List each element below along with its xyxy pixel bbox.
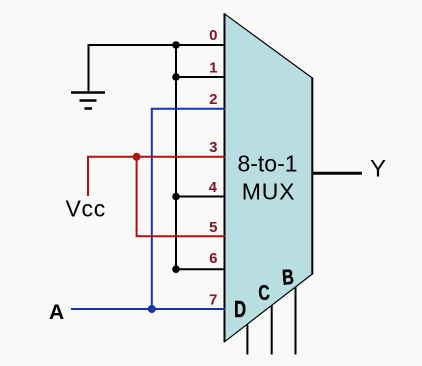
- node junction input 6: [172, 265, 180, 273]
- svg-text:1: 1: [209, 60, 217, 77]
- svg-text:B: B: [281, 266, 294, 291]
- node junction Vcc net: [133, 153, 141, 161]
- svg-text:5: 5: [209, 219, 217, 236]
- wire input 6: [176, 268, 225, 270]
- mux body right edge: [311, 78, 313, 275]
- node junction input 4: [172, 193, 180, 201]
- svg-text:Y: Y: [370, 156, 386, 183]
- svg-text:Vcc: Vcc: [66, 196, 106, 222]
- svg-text:6: 6: [209, 250, 217, 267]
- svg-text:A: A: [49, 301, 64, 324]
- svg-text:2: 2: [209, 91, 217, 108]
- svg-text:MUX: MUX: [242, 179, 296, 205]
- svg-text:C: C: [258, 280, 271, 304]
- wire input 1: [176, 76, 225, 78]
- wire input 5 red branch: [137, 157, 225, 236]
- node junction input 1: [172, 73, 180, 81]
- mux body bottom slant edge: [225, 274, 313, 342]
- node junction input 0: [172, 41, 180, 49]
- wire input 2 blue with vertical bus from A: [152, 109, 225, 309]
- svg-text:0: 0: [209, 27, 217, 44]
- svg-text:3: 3: [209, 139, 217, 156]
- svg-text:7: 7: [209, 292, 217, 309]
- ground: [71, 93, 105, 109]
- mux body left edge: [224, 13, 226, 342]
- svg-text:8-to-1: 8-to-1: [237, 151, 297, 177]
- node junction A: [148, 305, 156, 313]
- wire input 4: [176, 196, 225, 198]
- wire ground to input 0: [89, 45, 226, 91]
- mux body top slant edge: [225, 14, 313, 78]
- wire output Y: [312, 172, 362, 175]
- wire select B: [295, 287, 297, 355]
- wire select C: [271, 306, 273, 355]
- wire input 7 / A blue: [71, 308, 225, 310]
- wire select D: [246, 325, 248, 355]
- svg-text:4: 4: [209, 179, 218, 196]
- wire black bus vertical: [175, 45, 177, 269]
- wire input 3 red from Vcc: [88, 157, 225, 196]
- multiplexer U1 body (8-to-1 MUX trapezoid): [225, 14, 313, 342]
- svg-text:D: D: [234, 298, 246, 323]
